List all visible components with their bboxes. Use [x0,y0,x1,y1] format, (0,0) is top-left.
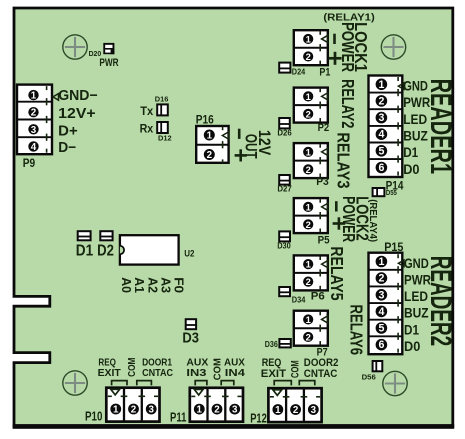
diode D24 body [279,63,290,73]
diode D3 body [186,319,196,329]
svg-text:5: 5 [378,145,384,157]
svg-text:P11: P11 [170,409,186,424]
label POWER lock2 (rotated) [339,196,359,242]
svg-text:2: 2 [378,95,384,107]
diode D30 body [279,231,290,241]
label COM (P11, rotated) [213,358,224,380]
svg-text:Tx: Tx [140,106,154,118]
svg-text:6: 6 [378,162,384,174]
svg-text:REQ: REQ [98,357,116,368]
svg-text:IN4: IN4 [225,368,245,379]
svg-text:2: 2 [306,331,311,342]
svg-text:READER1: READER1 [424,79,457,175]
svg-text:2: 2 [306,164,311,175]
svg-text:1: 1 [306,259,311,270]
svg-text:POWER: POWER [338,22,358,72]
label COM (P10, rotated) [127,358,138,377]
P16 plus mark [235,154,247,157]
P12 pin-pair brackets [274,381,291,386]
P16 minus mark [238,129,241,139]
svg-text:POWER: POWER [339,196,359,242]
svg-text:COM: COM [127,358,138,377]
svg-text:EXIT: EXIT [261,368,287,380]
svg-text:P15: P15 [384,242,404,254]
svg-text:COM: COM [213,358,224,380]
svg-text:IN3: IN3 [186,368,206,379]
P5 minus mark [335,201,338,211]
svg-text:(RELAY4): (RELAY4) [367,199,378,242]
svg-text:2: 2 [31,108,37,119]
svg-text:2: 2 [378,273,384,285]
svg-text:D27: D27 [277,185,292,194]
diode D27 body [279,175,290,185]
connector P14 [369,76,405,178]
svg-text:1: 1 [275,405,281,416]
svg-text:1: 1 [378,256,384,268]
label 12V OUT (rotated) [255,130,273,155]
svg-text:A3: A3 [159,277,173,293]
svg-text:2: 2 [293,405,299,416]
svg-text:A0: A0 [119,277,133,293]
svg-text:4: 4 [378,129,384,141]
svg-text:PWR: PWR [99,57,118,69]
mounting hole bottom-left [63,371,87,395]
P5 plus mark [333,222,346,225]
svg-text:1: 1 [31,91,37,102]
svg-text:1: 1 [306,314,311,325]
svg-text:3: 3 [378,112,384,124]
svg-text:1: 1 [306,146,311,157]
svg-text:2: 2 [131,405,137,416]
connector P3 [294,143,328,178]
label COM (P12, rotated) [290,360,302,378]
svg-text:P3: P3 [316,176,329,188]
P1 minus mark [333,34,336,44]
label READER2 (rotated) [424,256,457,347]
svg-text:RELAY5: RELAY5 [327,246,347,300]
svg-text:D55: D55 [386,188,397,197]
svg-text:P6: P6 [311,291,325,303]
svg-text:D−: D− [58,140,76,156]
LED D20 [103,43,114,54]
svg-text:D1: D1 [403,145,418,160]
svg-text:3: 3 [149,405,155,416]
svg-text:RELAY2: RELAY2 [338,79,358,128]
svg-text:A1: A1 [132,277,146,293]
connector P9 [17,85,59,155]
svg-text:P9: P9 [23,158,35,170]
svg-text:OUT: OUT [241,134,259,159]
svg-text:D3: D3 [182,330,199,347]
svg-text:D12: D12 [158,134,172,143]
svg-text:1: 1 [306,91,311,102]
svg-text:DOOR1: DOOR1 [142,357,172,368]
P10 pin-pair brackets [112,381,127,386]
diode D12 body [157,122,168,133]
svg-text:1: 1 [207,131,213,142]
svg-text:3: 3 [311,405,317,416]
svg-text:D1: D1 [404,322,419,337]
svg-text:P16: P16 [196,115,214,127]
svg-text:1: 1 [378,79,384,91]
P11 pin-pair brackets [195,381,207,386]
svg-text:RELAY6: RELAY6 [347,305,367,356]
label (RELAY4) (rotated) [367,199,378,242]
diode D56 body [373,361,383,371]
svg-text:3: 3 [378,289,384,301]
svg-text:2: 2 [306,108,311,119]
svg-text:CNTAC: CNTAC [142,368,173,379]
P1 plus mark [328,57,341,60]
svg-text:A2: A2 [145,277,159,293]
connector P15 [369,253,405,355]
connector P6 [294,255,328,290]
svg-text:P5: P5 [318,235,330,247]
connector P10 [106,388,159,422]
svg-text:D16: D16 [155,94,169,103]
mounting hole top-left [63,35,87,59]
svg-text:D1: D1 [76,243,94,260]
diode D55 body [373,188,385,196]
svg-text:F0: F0 [172,277,186,293]
label RELAY6 (rotated) [347,305,367,356]
label RELAY2 (rotated) [338,79,358,128]
diode D16 body [157,104,168,115]
svg-text:1: 1 [197,405,203,416]
svg-text:COM: COM [290,360,302,378]
label RELAY5 (rotated) [327,246,347,300]
svg-text:AUX: AUX [186,357,208,368]
svg-text:D0: D0 [404,339,421,354]
label RELAY3 (rotated) [333,132,353,188]
svg-text:RELAY3: RELAY3 [333,132,353,188]
diode D2 body [100,231,112,240]
connector P11 [190,388,243,422]
svg-text:1: 1 [113,405,119,416]
svg-text:D2: D2 [97,243,114,260]
svg-text:12V+: 12V+ [58,106,95,122]
connector P12 [268,388,321,422]
svg-text:4: 4 [31,142,37,153]
svg-text:CNTAC: CNTAC [304,368,338,380]
svg-text:D26: D26 [277,129,292,138]
connector P2 [294,88,328,123]
connector P1 [294,30,328,65]
connector P16 [196,126,228,163]
label LOCK2 (rotated) [353,196,373,240]
label LOCK1 (rotated) [351,22,371,72]
svg-text:3: 3 [232,405,238,416]
IC U2 [120,235,179,264]
diode D34 body [279,287,290,296]
svg-text:Rx: Rx [140,123,154,135]
diode D26 body [279,118,290,128]
label READER1 (rotated) [424,79,457,175]
svg-text:5: 5 [378,323,384,335]
svg-text:2: 2 [214,405,220,416]
svg-text:P2: P2 [318,122,330,134]
svg-text:1: 1 [306,33,311,44]
svg-text:4: 4 [378,306,384,318]
U2 pin labels A0 A1 A2 A3 F0 (rotated) [119,277,133,293]
svg-text:2: 2 [306,276,311,287]
diode D36 body [279,339,290,347]
svg-text:3: 3 [31,125,37,136]
label POWER (rotated) [338,22,358,72]
svg-text:D0: D0 [403,162,420,177]
diode D1 body [78,231,91,240]
connector P7 [294,311,328,346]
svg-text:2: 2 [207,150,213,161]
svg-text:LED: LED [403,112,427,127]
connector P5 [294,198,328,233]
svg-text:EXIT: EXIT [98,368,122,379]
mounting hole top-right [381,35,405,59]
svg-text:2: 2 [306,219,311,230]
svg-text:READER2: READER2 [424,256,457,347]
svg-text:D34: D34 [292,295,306,304]
board bottom thick edge [13,424,455,429]
svg-text:D24: D24 [292,68,306,77]
svg-text:D+: D+ [58,123,78,139]
svg-text:6: 6 [378,339,384,351]
svg-text:2: 2 [306,51,311,62]
svg-text:P10: P10 [85,409,102,424]
svg-text:1: 1 [306,201,311,212]
mounting hole bottom-right [383,371,407,395]
svg-text:AUX: AUX [224,357,245,368]
svg-text:P12: P12 [250,411,267,426]
svg-text:D56: D56 [362,372,376,381]
svg-text:GND−: GND− [58,88,97,104]
svg-text:U2: U2 [184,248,194,258]
svg-text:D30: D30 [277,242,291,251]
svg-text:P1: P1 [319,66,330,78]
svg-text:D36: D36 [265,340,278,349]
